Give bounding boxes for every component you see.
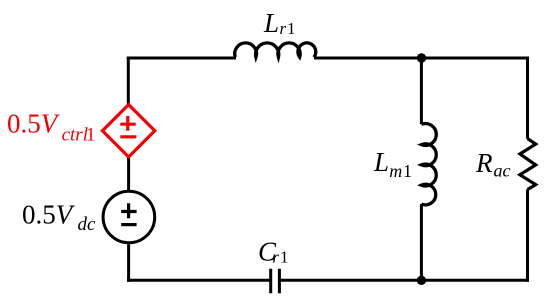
resistor R_ac	[520, 139, 536, 190]
svg-text:1: 1	[280, 247, 289, 266]
svg-text:L: L	[373, 147, 389, 177]
wire: left vertical from circle bottom to corner	[127, 244, 130, 282]
wire: bottom horizontal right of capacitor	[279, 279, 529, 282]
inductor L_m1	[421, 124, 436, 205]
svg-text:1: 1	[403, 161, 412, 181]
wire: middle branch vertical lower	[420, 204, 423, 280]
minus sign inside diamond (red)	[120, 135, 136, 138]
svg-text:r: r	[280, 19, 287, 38]
svg-text:L: L	[263, 8, 279, 38]
plus sign inside circle	[121, 203, 136, 218]
svg-text:R: R	[475, 148, 493, 178]
svg-text:dc: dc	[78, 214, 97, 235]
svg-text:ctrl: ctrl	[62, 125, 88, 146]
wire: right vertical upper (to resistor)	[526, 57, 529, 139]
svg-text:r: r	[272, 247, 279, 266]
wire: middle branch vertical upper (dot to coil)	[420, 58, 423, 124]
svg-text:1: 1	[287, 19, 296, 38]
node: bottom junction dot	[417, 276, 426, 285]
plus sign inside diamond (red)	[120, 116, 135, 131]
node: top junction dot	[417, 53, 426, 62]
svg-text:0.5V: 0.5V	[22, 199, 76, 229]
minus sign inside circle	[121, 223, 136, 226]
wire: between diamond and circle	[127, 157, 130, 191]
wire: top-left vertical from corner to diamond top	[127, 57, 130, 105]
inductor L_r1	[235, 43, 316, 57]
wire: top horizontal left segment	[127, 57, 236, 60]
capacitor C_r1	[271, 269, 280, 294]
wire: right vertical lower	[526, 190, 529, 282]
voltage source V_dc circle U2	[103, 191, 155, 243]
wire: top horizontal right segment	[314, 57, 529, 60]
svg-text:ac: ac	[494, 161, 511, 181]
svg-text:1: 1	[86, 125, 96, 146]
controlled source diamond U1 (red)	[102, 105, 154, 157]
svg-text:m: m	[389, 161, 402, 181]
svg-text:0.5V: 0.5V	[7, 109, 61, 139]
wire: bottom horizontal left of capacitor	[127, 279, 271, 282]
